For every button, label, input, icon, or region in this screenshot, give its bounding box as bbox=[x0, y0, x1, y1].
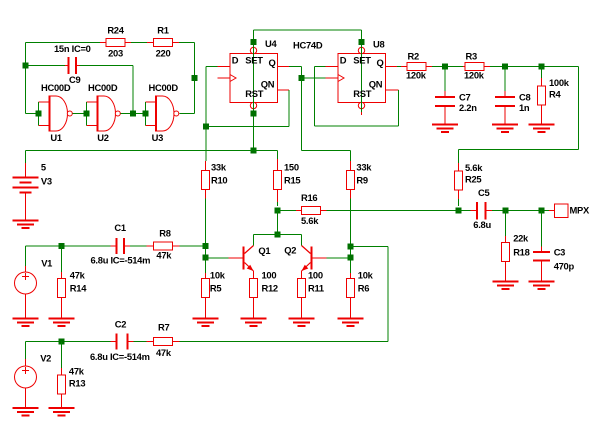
U4 pin D stub bbox=[218, 66, 231, 68]
capacitor C1 bbox=[111, 238, 147, 254]
svg-text:R11: R11 bbox=[308, 283, 324, 294]
svg-text:5.6k: 5.6k bbox=[301, 215, 319, 226]
node R25/C5 junction bbox=[456, 208, 462, 214]
svg-text:D: D bbox=[232, 54, 239, 65]
svg-text:1n: 1n bbox=[519, 102, 530, 113]
svg-text:Q1: Q1 bbox=[258, 245, 270, 256]
svg-text:6.8u IC=-514m: 6.8u IC=-514m bbox=[91, 255, 151, 266]
capacitor C3 bbox=[533, 211, 550, 282]
node V1/R14 junction bbox=[59, 243, 65, 249]
ground under R18 bbox=[493, 281, 519, 283]
svg-text:47k: 47k bbox=[156, 347, 172, 358]
capacitor C9 bbox=[26, 57, 134, 74]
svg-text:C3: C3 bbox=[554, 246, 565, 257]
node U8 SET junction bbox=[359, 39, 365, 45]
wire V2 channel up bbox=[387, 247, 389, 342]
wire R10 bottom to summing node bbox=[205, 199, 207, 274]
node C9 drop junction bbox=[130, 111, 136, 117]
U4 SET bubble bbox=[250, 47, 256, 53]
svg-text:R2: R2 bbox=[408, 51, 419, 62]
wire R15 node down to collector node bbox=[277, 211, 279, 235]
node U4 SET junction bbox=[251, 39, 257, 45]
svg-text:R3: R3 bbox=[466, 51, 477, 62]
svg-text:R16: R16 bbox=[301, 192, 317, 203]
node V2/R13 junction bbox=[59, 339, 65, 345]
U4 pin QN stub bbox=[278, 89, 290, 91]
wire R9 bottom to summing node 2 bbox=[350, 199, 352, 274]
wire U4 QN feedback down bbox=[288, 90, 290, 126]
svg-text:U4: U4 bbox=[265, 38, 277, 49]
svg-text:C2: C2 bbox=[115, 318, 126, 329]
svg-text:C7: C7 bbox=[459, 91, 470, 102]
wire U8 SET vertical through body bbox=[361, 30, 363, 112]
wire U1 out to U2 in bbox=[73, 113, 87, 115]
svg-text:RST: RST bbox=[245, 88, 263, 99]
resistor R18 bbox=[502, 211, 510, 282]
resistor R1 bbox=[147, 39, 179, 47]
node R4 tap bbox=[539, 64, 545, 70]
node Q2 base junction bbox=[348, 255, 354, 261]
wire V2 channel to summing node 2 bbox=[351, 246, 389, 248]
node C8 tap bbox=[502, 64, 508, 70]
svg-text:100: 100 bbox=[262, 270, 277, 281]
svg-text:C5: C5 bbox=[478, 187, 489, 198]
svg-text:HC00D: HC00D bbox=[149, 82, 179, 93]
wire down to R25 bbox=[458, 150, 460, 164]
wire U4 SET/RST vertical bbox=[253, 30, 255, 151]
svg-text:HC00D: HC00D bbox=[88, 82, 118, 93]
wire into U1 inputs bbox=[26, 113, 39, 115]
wire U8 QN feedback down bbox=[398, 90, 400, 126]
svg-text:10k: 10k bbox=[358, 270, 374, 281]
ground under V2 bbox=[13, 407, 39, 409]
node U3 input junction bbox=[143, 111, 149, 117]
U8 SET bubble bbox=[358, 47, 364, 53]
wire R8 to summing node bbox=[180, 245, 206, 247]
wire Q2 base bbox=[327, 257, 351, 259]
resistor R10 bbox=[202, 161, 210, 199]
node R15/R16 junction bbox=[275, 208, 281, 214]
wire top feedback left segment bbox=[26, 42, 107, 44]
wire C9 right drop bbox=[132, 66, 134, 114]
svg-text:U8: U8 bbox=[373, 39, 384, 50]
svg-text:R13: R13 bbox=[69, 378, 85, 389]
wire SET-RST tie top U4-U8 bbox=[254, 29, 362, 31]
terminal MPX bbox=[549, 204, 568, 218]
resistor R13 bbox=[58, 342, 66, 409]
U8 RST bubble bbox=[358, 102, 364, 108]
wire left vertical of oscillator bbox=[25, 43, 27, 114]
svg-text:C1: C1 bbox=[114, 222, 125, 233]
node U4 RST junction bbox=[251, 111, 257, 117]
svg-text:HC74D: HC74D bbox=[293, 39, 323, 50]
node R7 summing junction bbox=[348, 244, 354, 250]
wire U8 D vertical bbox=[314, 67, 316, 126]
resistor R4 bbox=[538, 67, 546, 125]
node clock tap junction bbox=[192, 75, 198, 81]
wire U4 D horizontal bbox=[206, 66, 218, 68]
svg-text:5: 5 bbox=[41, 162, 46, 173]
wire vertical to U3 output bbox=[194, 43, 196, 114]
svg-text:Q2: Q2 bbox=[284, 245, 296, 256]
U4 pin CLK stub bbox=[218, 77, 231, 79]
svg-text:R6: R6 bbox=[358, 283, 369, 294]
source V2 bbox=[15, 342, 37, 409]
ground under C8 bbox=[492, 124, 518, 126]
ground under R14 bbox=[49, 318, 75, 320]
wire R3 to right bbox=[490, 66, 579, 68]
resistor R14 bbox=[58, 246, 66, 319]
svg-text:Q: Q bbox=[269, 57, 276, 68]
gate U1 (HC00D NAND) bbox=[50, 96, 57, 131]
svg-text:470p: 470p bbox=[554, 260, 575, 271]
transistor Q1 bbox=[229, 246, 254, 280]
wire Q1 base bbox=[206, 257, 229, 259]
U4 pin Q stub bbox=[278, 66, 290, 68]
svg-text:V3: V3 bbox=[41, 176, 52, 187]
resistor R9 bbox=[347, 161, 355, 199]
svg-text:SET: SET bbox=[245, 54, 263, 65]
resistor R8 bbox=[147, 242, 180, 250]
node C7 tap bbox=[442, 64, 448, 70]
wire R16 to R25 node bbox=[327, 210, 459, 212]
U8 pin QN stub bbox=[386, 89, 399, 91]
svg-text:47k: 47k bbox=[69, 365, 85, 376]
svg-text:5.6k: 5.6k bbox=[465, 162, 483, 173]
resistor R6 bbox=[347, 273, 355, 319]
wire C5 to MPX bbox=[506, 210, 550, 212]
svg-text:V1: V1 bbox=[41, 258, 52, 269]
node R8 summing junction bbox=[203, 243, 209, 249]
svg-text:R4: R4 bbox=[549, 88, 561, 99]
node U4 RST to 5V rail junction bbox=[251, 148, 257, 154]
gate U2 (HC00D NAND) bbox=[98, 96, 105, 131]
capacitor C2 bbox=[111, 334, 147, 350]
svg-text:47k: 47k bbox=[156, 250, 172, 261]
node C3 tap bbox=[539, 208, 545, 214]
svg-text:150: 150 bbox=[284, 162, 299, 173]
wire U8 D horizontal bbox=[315, 66, 326, 68]
node collector tie junction bbox=[275, 232, 281, 238]
svg-text:220: 220 bbox=[156, 47, 171, 58]
wire U8 Q to R2 bbox=[397, 66, 401, 68]
wire U8 QN feedback horizontal bbox=[315, 125, 399, 127]
svg-text:U3: U3 bbox=[152, 132, 163, 143]
capacitor C7 bbox=[435, 67, 455, 125]
wire R1 to corner bbox=[179, 42, 195, 44]
ground under C7 bbox=[432, 124, 458, 126]
resistor R7 bbox=[147, 338, 180, 346]
ground under R6 bbox=[338, 318, 364, 320]
node U4 D/QN feedback junction bbox=[203, 123, 209, 129]
svg-text:R18: R18 bbox=[513, 246, 529, 257]
svg-text:R10: R10 bbox=[211, 175, 227, 186]
source V1 bbox=[15, 246, 37, 319]
svg-text:RST: RST bbox=[353, 88, 371, 99]
wire U4 Q out bbox=[289, 66, 302, 68]
wire V2 to C2 bbox=[26, 341, 111, 343]
wire clock node to U8 CLK bbox=[302, 77, 326, 79]
svg-text:6.8u IC=-514m: 6.8u IC=-514m bbox=[90, 351, 150, 362]
ground under V3 bbox=[13, 220, 39, 222]
node U1 input junction bbox=[36, 111, 42, 117]
resistor R24 bbox=[100, 39, 131, 47]
node U8 clock junction bbox=[299, 75, 305, 81]
capacitor C5 bbox=[459, 202, 506, 220]
wire 5V rail bbox=[26, 150, 278, 152]
svg-text:100: 100 bbox=[308, 270, 323, 281]
ground under C3 bbox=[529, 281, 555, 283]
U8 pin Q stub bbox=[386, 66, 398, 68]
wire right edge left to R25 bbox=[459, 149, 579, 151]
svg-text:120k: 120k bbox=[406, 69, 427, 80]
node Q1 base junction bbox=[203, 255, 209, 261]
svg-text:D: D bbox=[340, 54, 347, 65]
wire clock node down bbox=[301, 78, 303, 151]
wire R7 right bbox=[180, 341, 389, 343]
resistor R15 bbox=[274, 151, 282, 207]
node R18 tap bbox=[503, 208, 509, 214]
svg-text:R8: R8 bbox=[159, 227, 170, 238]
resistor R16 bbox=[296, 207, 327, 215]
resistor R2 bbox=[401, 63, 432, 71]
op-amp U4 (HC74D D flip-flop) bbox=[230, 54, 278, 103]
wire U4 QN feedback horizontal bbox=[206, 125, 289, 127]
svg-text:47k: 47k bbox=[70, 269, 86, 280]
resistor R3 bbox=[463, 63, 490, 71]
U8 pin D stub bbox=[326, 66, 339, 68]
U4 RST bubble bbox=[250, 102, 256, 108]
svg-text:C8: C8 bbox=[519, 91, 530, 102]
svg-text:R14: R14 bbox=[70, 283, 87, 294]
ground under R11 bbox=[289, 318, 315, 320]
svg-text:2.2n: 2.2n bbox=[459, 102, 477, 113]
svg-text:U1: U1 bbox=[50, 132, 61, 143]
wire Q1 collector up bbox=[253, 235, 255, 246]
transistor Q2 bbox=[302, 246, 327, 280]
svg-text:R25: R25 bbox=[465, 174, 481, 185]
svg-text:33k: 33k bbox=[211, 162, 227, 173]
svg-text:R12: R12 bbox=[262, 283, 278, 294]
U8 pin CLK stub bbox=[326, 77, 339, 79]
node U2 input junction bbox=[84, 111, 90, 117]
svg-text:R5: R5 bbox=[210, 283, 221, 294]
U8 RST unconnected pin tip bbox=[361, 109, 363, 116]
wire Q2 collector up bbox=[301, 235, 303, 246]
ground under R13 bbox=[49, 407, 75, 409]
capacitor C8 bbox=[495, 67, 515, 125]
wire U4 D vertical bbox=[205, 67, 207, 162]
svg-text:Q: Q bbox=[377, 57, 384, 68]
wire R2 to C7 node bbox=[432, 66, 463, 68]
wire U3 out bbox=[179, 113, 194, 115]
svg-text:C9: C9 bbox=[69, 74, 80, 85]
svg-text:33k: 33k bbox=[356, 162, 372, 173]
wire MPX line left bbox=[278, 210, 297, 212]
svg-text:SET: SET bbox=[353, 54, 371, 65]
ground under R4 bbox=[529, 124, 555, 126]
svg-text:203: 203 bbox=[108, 47, 123, 58]
svg-text:R7: R7 bbox=[158, 322, 169, 333]
svg-text:15n IC=0: 15n IC=0 bbox=[54, 43, 91, 54]
svg-text:R24: R24 bbox=[107, 24, 124, 35]
gate U3 (HC00D NAND) bbox=[156, 96, 163, 131]
wire right edge down bbox=[578, 67, 580, 150]
ground under R12 bbox=[241, 318, 267, 320]
wire collector tie horizontal bbox=[254, 234, 302, 236]
node C9 left junction bbox=[23, 63, 29, 69]
svg-text:R15: R15 bbox=[284, 175, 300, 186]
svg-text:V2: V2 bbox=[40, 353, 51, 364]
svg-text:100k: 100k bbox=[549, 77, 570, 88]
wire U2 out to U3 in bbox=[121, 113, 146, 115]
battery V3 bbox=[13, 151, 39, 221]
wire U4 Q down to clock node bbox=[301, 67, 303, 79]
op-amp U8 (HC74D D flip-flop) bbox=[338, 54, 386, 103]
resistor R25 bbox=[455, 163, 463, 206]
ground under V1 bbox=[13, 318, 39, 320]
resistor R5 bbox=[202, 273, 210, 319]
wire R9 top vertical bbox=[350, 151, 352, 162]
svg-text:22k: 22k bbox=[513, 233, 529, 244]
svg-text:R1: R1 bbox=[157, 24, 168, 35]
wire R24 to R1 bbox=[131, 42, 147, 44]
svg-text:U2: U2 bbox=[97, 132, 108, 143]
ground under R5 bbox=[193, 318, 219, 320]
wire to R9 top horizontal bbox=[302, 150, 351, 152]
svg-text:HC00D: HC00D bbox=[41, 82, 71, 93]
resistor R12 bbox=[250, 279, 258, 319]
svg-text:R9: R9 bbox=[356, 175, 367, 186]
svg-text:10k: 10k bbox=[210, 270, 226, 281]
svg-text:MPX: MPX bbox=[570, 204, 591, 215]
svg-text:120k: 120k bbox=[464, 69, 485, 80]
svg-text:6.8u: 6.8u bbox=[473, 219, 491, 230]
resistor R11 bbox=[298, 279, 306, 319]
wire V1 to C1 bbox=[26, 245, 111, 247]
